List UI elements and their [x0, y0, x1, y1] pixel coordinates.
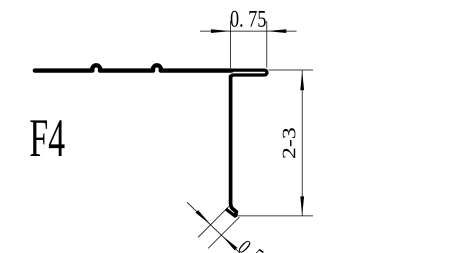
hem dimension: lower arrow: [222, 236, 237, 251]
label F4: [30, 120, 64, 156]
dimension 2-3: bottom arrow: [300, 196, 304, 216]
dimension 0.75: left extension line: [229, 21, 231, 68]
profile hem lip (folded return at right end): [231, 70, 267, 78]
bottom hem fold (outer bend): [234, 212, 238, 215]
dimension 2-3: bottom extension line: [237, 215, 313, 217]
dimension 2-3: top arrow: [300, 71, 304, 91]
hem dimension: extension line near tip (upper): [198, 206, 229, 237]
hem dimension: extension line near fold (lower): [208, 217, 239, 248]
hem dimension: text 0.5 (rotated italic, clipped at page edge): [238, 239, 264, 253]
profile top flange with two beads: [35, 65, 232, 70]
dimension 0.75: text: [231, 11, 266, 27]
dimension 0.75: right arrow: [267, 29, 287, 33]
dimension 0.75: right extension line: [266, 21, 268, 68]
hem dimension: upper arrow: [196, 210, 211, 225]
dimension 2-3: top extension line: [269, 69, 313, 71]
bottom hem return leaf (folded back tip): [227, 210, 235, 216]
hem dimension: diagonal dimension line: [187, 202, 241, 253]
profile vertical stem bending into bottom hem upper leaf: [231, 77, 236, 212]
dimension 2-3: vertical dimension line: [301, 70, 303, 216]
dimension 2-3: text (rotated): [283, 128, 296, 158]
dimension 0.75: left arrow: [211, 29, 231, 33]
dimension 0.75: dimension line: [200, 30, 297, 32]
